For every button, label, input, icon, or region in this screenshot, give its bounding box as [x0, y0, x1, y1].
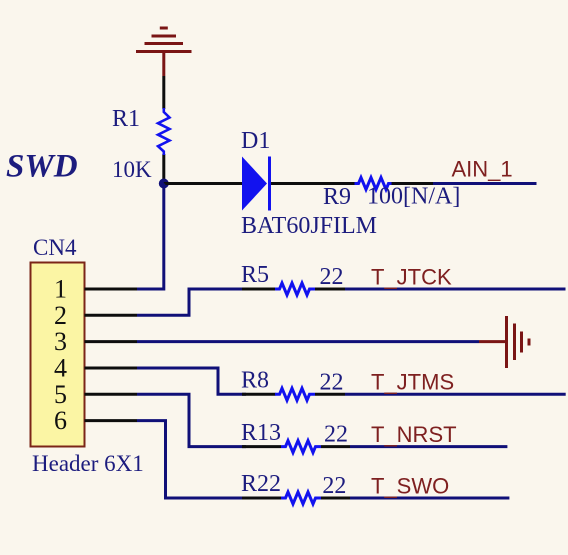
svg-text:3: 3 [54, 327, 67, 356]
svg-text:22: 22 [320, 369, 344, 395]
svg-text:T_SWO: T_SWO [371, 473, 449, 498]
svg-text:R22: R22 [241, 471, 281, 497]
svg-text:6: 6 [54, 406, 67, 435]
svg-text:CN4: CN4 [33, 235, 77, 260]
svg-text:R13: R13 [241, 420, 281, 446]
svg-text:T_JTCK: T_JTCK [371, 264, 452, 289]
svg-text:R9: R9 [323, 184, 351, 210]
svg-text:22: 22 [320, 264, 344, 290]
svg-text:R5: R5 [241, 262, 269, 288]
svg-text:BAT60JFILM: BAT60JFILM [241, 213, 377, 239]
svg-text:22: 22 [322, 473, 346, 499]
svg-text:10K: 10K [112, 157, 152, 182]
svg-text:2: 2 [54, 301, 67, 330]
svg-text:T_NRST: T_NRST [371, 422, 457, 447]
svg-text:4: 4 [54, 354, 67, 383]
svg-text:SWD: SWD [6, 149, 78, 185]
svg-text:AIN_1: AIN_1 [452, 157, 513, 182]
svg-text:D1: D1 [241, 128, 270, 154]
svg-text:T_JTMS: T_JTMS [371, 370, 454, 395]
svg-text:Header 6X1: Header 6X1 [32, 451, 144, 476]
svg-text:R1: R1 [112, 106, 140, 132]
svg-text:R8: R8 [241, 367, 269, 393]
svg-text:100[N/A]: 100[N/A] [367, 184, 460, 210]
svg-text:5: 5 [54, 380, 67, 409]
svg-text:22: 22 [324, 422, 348, 448]
svg-text:1: 1 [54, 275, 67, 304]
